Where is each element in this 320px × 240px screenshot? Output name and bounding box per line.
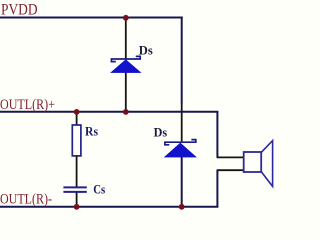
wire D1 top pin (125, 18, 127, 60)
diode D2 (Ds) triangle (165, 143, 197, 157)
wire OUTL(R)- rail (0, 206, 218, 208)
wire speaker bottom feed vertical (216, 170, 218, 206)
junction dot on OUTL+ at Rs (74, 109, 80, 115)
wire Cs bottom pin (76, 193, 78, 207)
wire Rs bottom pin to Cs (76, 156, 78, 187)
wire OUTL(R)+ rail (0, 111, 218, 113)
wire speaker bottom stub (217, 169, 244, 171)
wire D2 bottom to OUTL- (181, 157, 183, 207)
junction dot on OUTL- at D2 (179, 204, 185, 210)
capacitor Cs top plate (63, 186, 86, 188)
wire right rail upper (PVDD down to D2) (181, 17, 183, 105)
wire speaker top feed vertical (216, 112, 218, 158)
wire Rs top pin (76, 111, 78, 125)
svg-text:PVDD: PVDD (1, 1, 38, 18)
junction dot on OUTL+ at D1 (123, 109, 129, 115)
diode D1 (Ds) triangle (111, 60, 141, 73)
svg-text:Ds: Ds (139, 43, 153, 58)
capacitor Cs bottom plate (63, 191, 86, 193)
wire D2 top pin (181, 104, 183, 141)
diode D2 (Ds) cathode bar (165, 140, 196, 145)
svg-text:Cs: Cs (93, 181, 105, 196)
svg-text:OUTL(R)-: OUTL(R)- (0, 192, 52, 208)
svg-text:OUTL(R)+: OUTL(R)+ (0, 97, 55, 113)
diode D1 (Ds) cathode bar (111, 56, 140, 61)
wire PVDD rail (0, 17, 183, 19)
junction dot on PVDD at D1 (123, 15, 129, 21)
svg-text:Ds: Ds (154, 124, 168, 139)
junction dot on OUTL- at Cs (74, 204, 80, 210)
wire D1 bottom pin (125, 73, 127, 112)
svg-text:Rs: Rs (85, 124, 98, 139)
speaker LS1 horn (261, 141, 272, 187)
wire speaker top stub (217, 156, 244, 158)
speaker LS1 body (244, 152, 262, 172)
resistor Rs body (72, 125, 81, 156)
